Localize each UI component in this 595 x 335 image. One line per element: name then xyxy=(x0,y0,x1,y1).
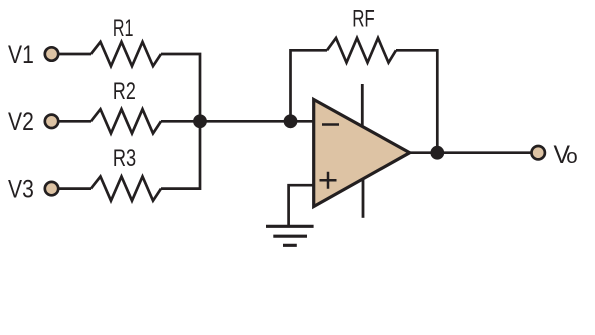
output wire xyxy=(410,151,532,154)
wire V3 to R3 xyxy=(59,187,91,190)
wire V2 to R2 xyxy=(59,120,91,123)
wire R2 to op-amp inverting input xyxy=(161,120,314,123)
svg-text:o: o xyxy=(566,145,577,168)
wire V1 to R1 xyxy=(59,53,91,56)
node at inverting input xyxy=(284,114,298,128)
ground symbol xyxy=(266,226,314,245)
svg-text:R3: R3 xyxy=(113,145,136,172)
op-amp minus sign xyxy=(322,123,339,126)
terminal V3 xyxy=(45,182,58,195)
wire RF left leg xyxy=(291,50,328,121)
svg-text:R2: R2 xyxy=(113,78,136,105)
output node xyxy=(430,146,444,160)
terminal Vo xyxy=(532,146,545,159)
svg-text:V2: V2 xyxy=(8,109,34,136)
resistor R2 xyxy=(91,109,161,133)
terminal V2 xyxy=(45,115,58,128)
wire noninverting input to ground xyxy=(289,185,314,226)
resistor RF xyxy=(327,38,396,63)
resistor R3 xyxy=(91,177,161,201)
svg-text:R1: R1 xyxy=(113,15,134,42)
op-amp plus sign xyxy=(320,172,337,189)
terminal V1 xyxy=(45,47,58,60)
wire R1 to bus, bus column, wire R3 to bus xyxy=(161,54,200,189)
op-amp U1 triangle xyxy=(314,100,410,207)
op-amp positive supply pin xyxy=(361,84,364,127)
svg-text:RF: RF xyxy=(352,6,375,33)
svg-text:V3: V3 xyxy=(8,176,34,203)
wire RF right leg to output node xyxy=(396,50,437,152)
svg-text:V1: V1 xyxy=(8,42,34,69)
junction node (summing bus) xyxy=(193,114,207,128)
op-amp negative supply pin xyxy=(362,179,365,218)
resistor R1 xyxy=(91,42,161,66)
